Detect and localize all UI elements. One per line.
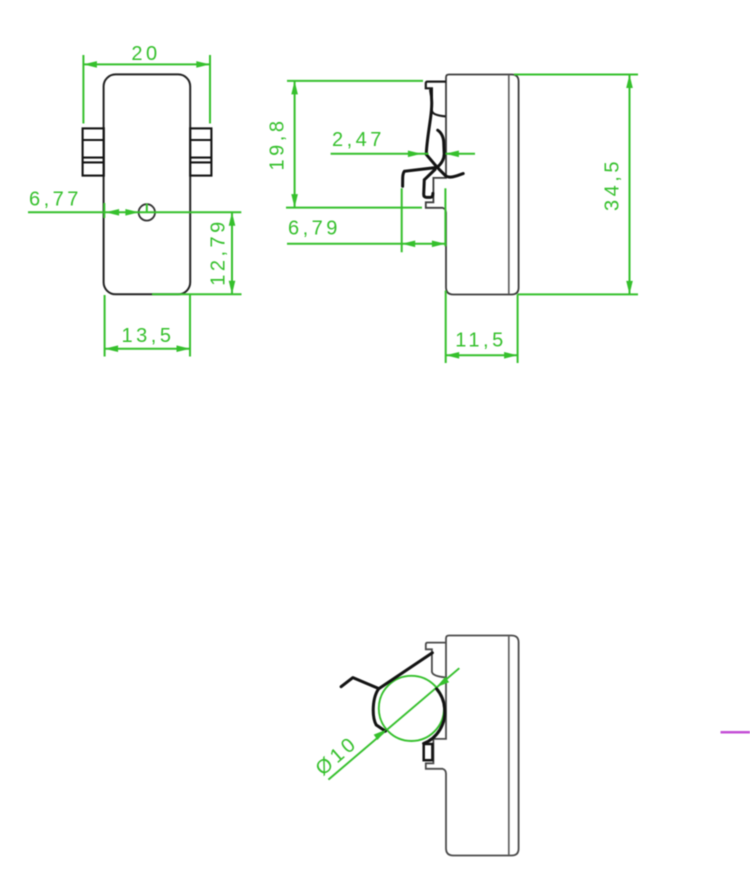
- stub at body edge: [103, 203, 105, 218]
- small hole circle: [139, 204, 155, 220]
- dim 13,5 ext lines: [104, 295, 106, 357]
- left tab: [83, 128, 104, 175]
- clip wire diagonal from tab: [379, 653, 433, 689]
- arrowheads 6,79: [402, 241, 416, 248]
- dim 11,5 line: [446, 354, 518, 356]
- seam double line: [508, 636, 510, 854]
- svg-text:19,8: 19,8: [267, 118, 289, 171]
- arrowheads 34,5: [626, 75, 633, 89]
- clip wire upper hook crossing: [403, 130, 445, 186]
- clip wire end hook zigzag: [341, 678, 379, 689]
- svg-text:11,5: 11,5: [455, 330, 506, 352]
- right tab: [190, 128, 211, 175]
- dim 6,79 line: [287, 243, 445, 245]
- dim 20 extension lines: [82, 55, 84, 124]
- green dimensions of view 2: [286, 75, 638, 364]
- dim 13,5 line: [105, 348, 190, 350]
- clip wire main run: [426, 91, 463, 178]
- dim 11,5 ext lines: [445, 291, 447, 364]
- svg-text:34,5: 34,5: [602, 158, 624, 211]
- seam double line: [508, 75, 510, 293]
- dim 12,79 line: [231, 212, 233, 294]
- main horizontal centerline 6,77: [28, 211, 241, 213]
- arrowheads 12,79: [229, 212, 236, 226]
- diameter leader line: [328, 668, 459, 779]
- arrowheads dim 20: [83, 61, 97, 68]
- body front outline: [104, 74, 191, 294]
- dim 34,5 ext lines: [514, 74, 638, 76]
- side body outline: [426, 75, 519, 295]
- clip wire U-bend: [424, 170, 435, 198]
- green dimensions of view 1: [28, 55, 242, 357]
- dim 20 line: [83, 63, 209, 65]
- dim 19,8 ext lines: [287, 80, 423, 82]
- dim 34,5 line: [629, 75, 631, 295]
- clip wire left side along pipe: [373, 689, 385, 731]
- clip wire right arc around pipe: [424, 689, 445, 744]
- svg-text:6,79: 6,79: [288, 218, 341, 240]
- dim 19,8 line: [294, 81, 296, 208]
- clip wire seated end in notch: [424, 744, 433, 760]
- svg-text:13,5: 13,5: [122, 325, 175, 347]
- magenta stray line at right: [721, 731, 750, 734]
- top mounting tab: [426, 82, 446, 117]
- arrowheads 6,77: [106, 209, 120, 216]
- arrowheads 11,5: [446, 352, 460, 359]
- svg-text:12,79: 12,79: [208, 218, 230, 286]
- arrowheads 19,8: [291, 81, 298, 95]
- dim 2,47 line right: [445, 153, 475, 155]
- dim 12,79 bottom ext: [152, 293, 242, 295]
- circle center tick: [146, 204, 148, 213]
- top mounting tab: [426, 643, 446, 678]
- svg-text:20: 20: [131, 43, 160, 65]
- dim 2,47 line left: [331, 153, 429, 155]
- svg-text:2,47: 2,47: [332, 129, 385, 151]
- svg-text:6,77: 6,77: [29, 189, 82, 211]
- diameter arrowheads: [374, 677, 449, 740]
- dim 6,79 ext lines: [401, 188, 403, 252]
- arrowheads 2,47: [408, 151, 422, 158]
- arrowheads 13,5: [105, 345, 119, 352]
- pipe circle: [379, 676, 444, 741]
- side body outline: [426, 636, 519, 856]
